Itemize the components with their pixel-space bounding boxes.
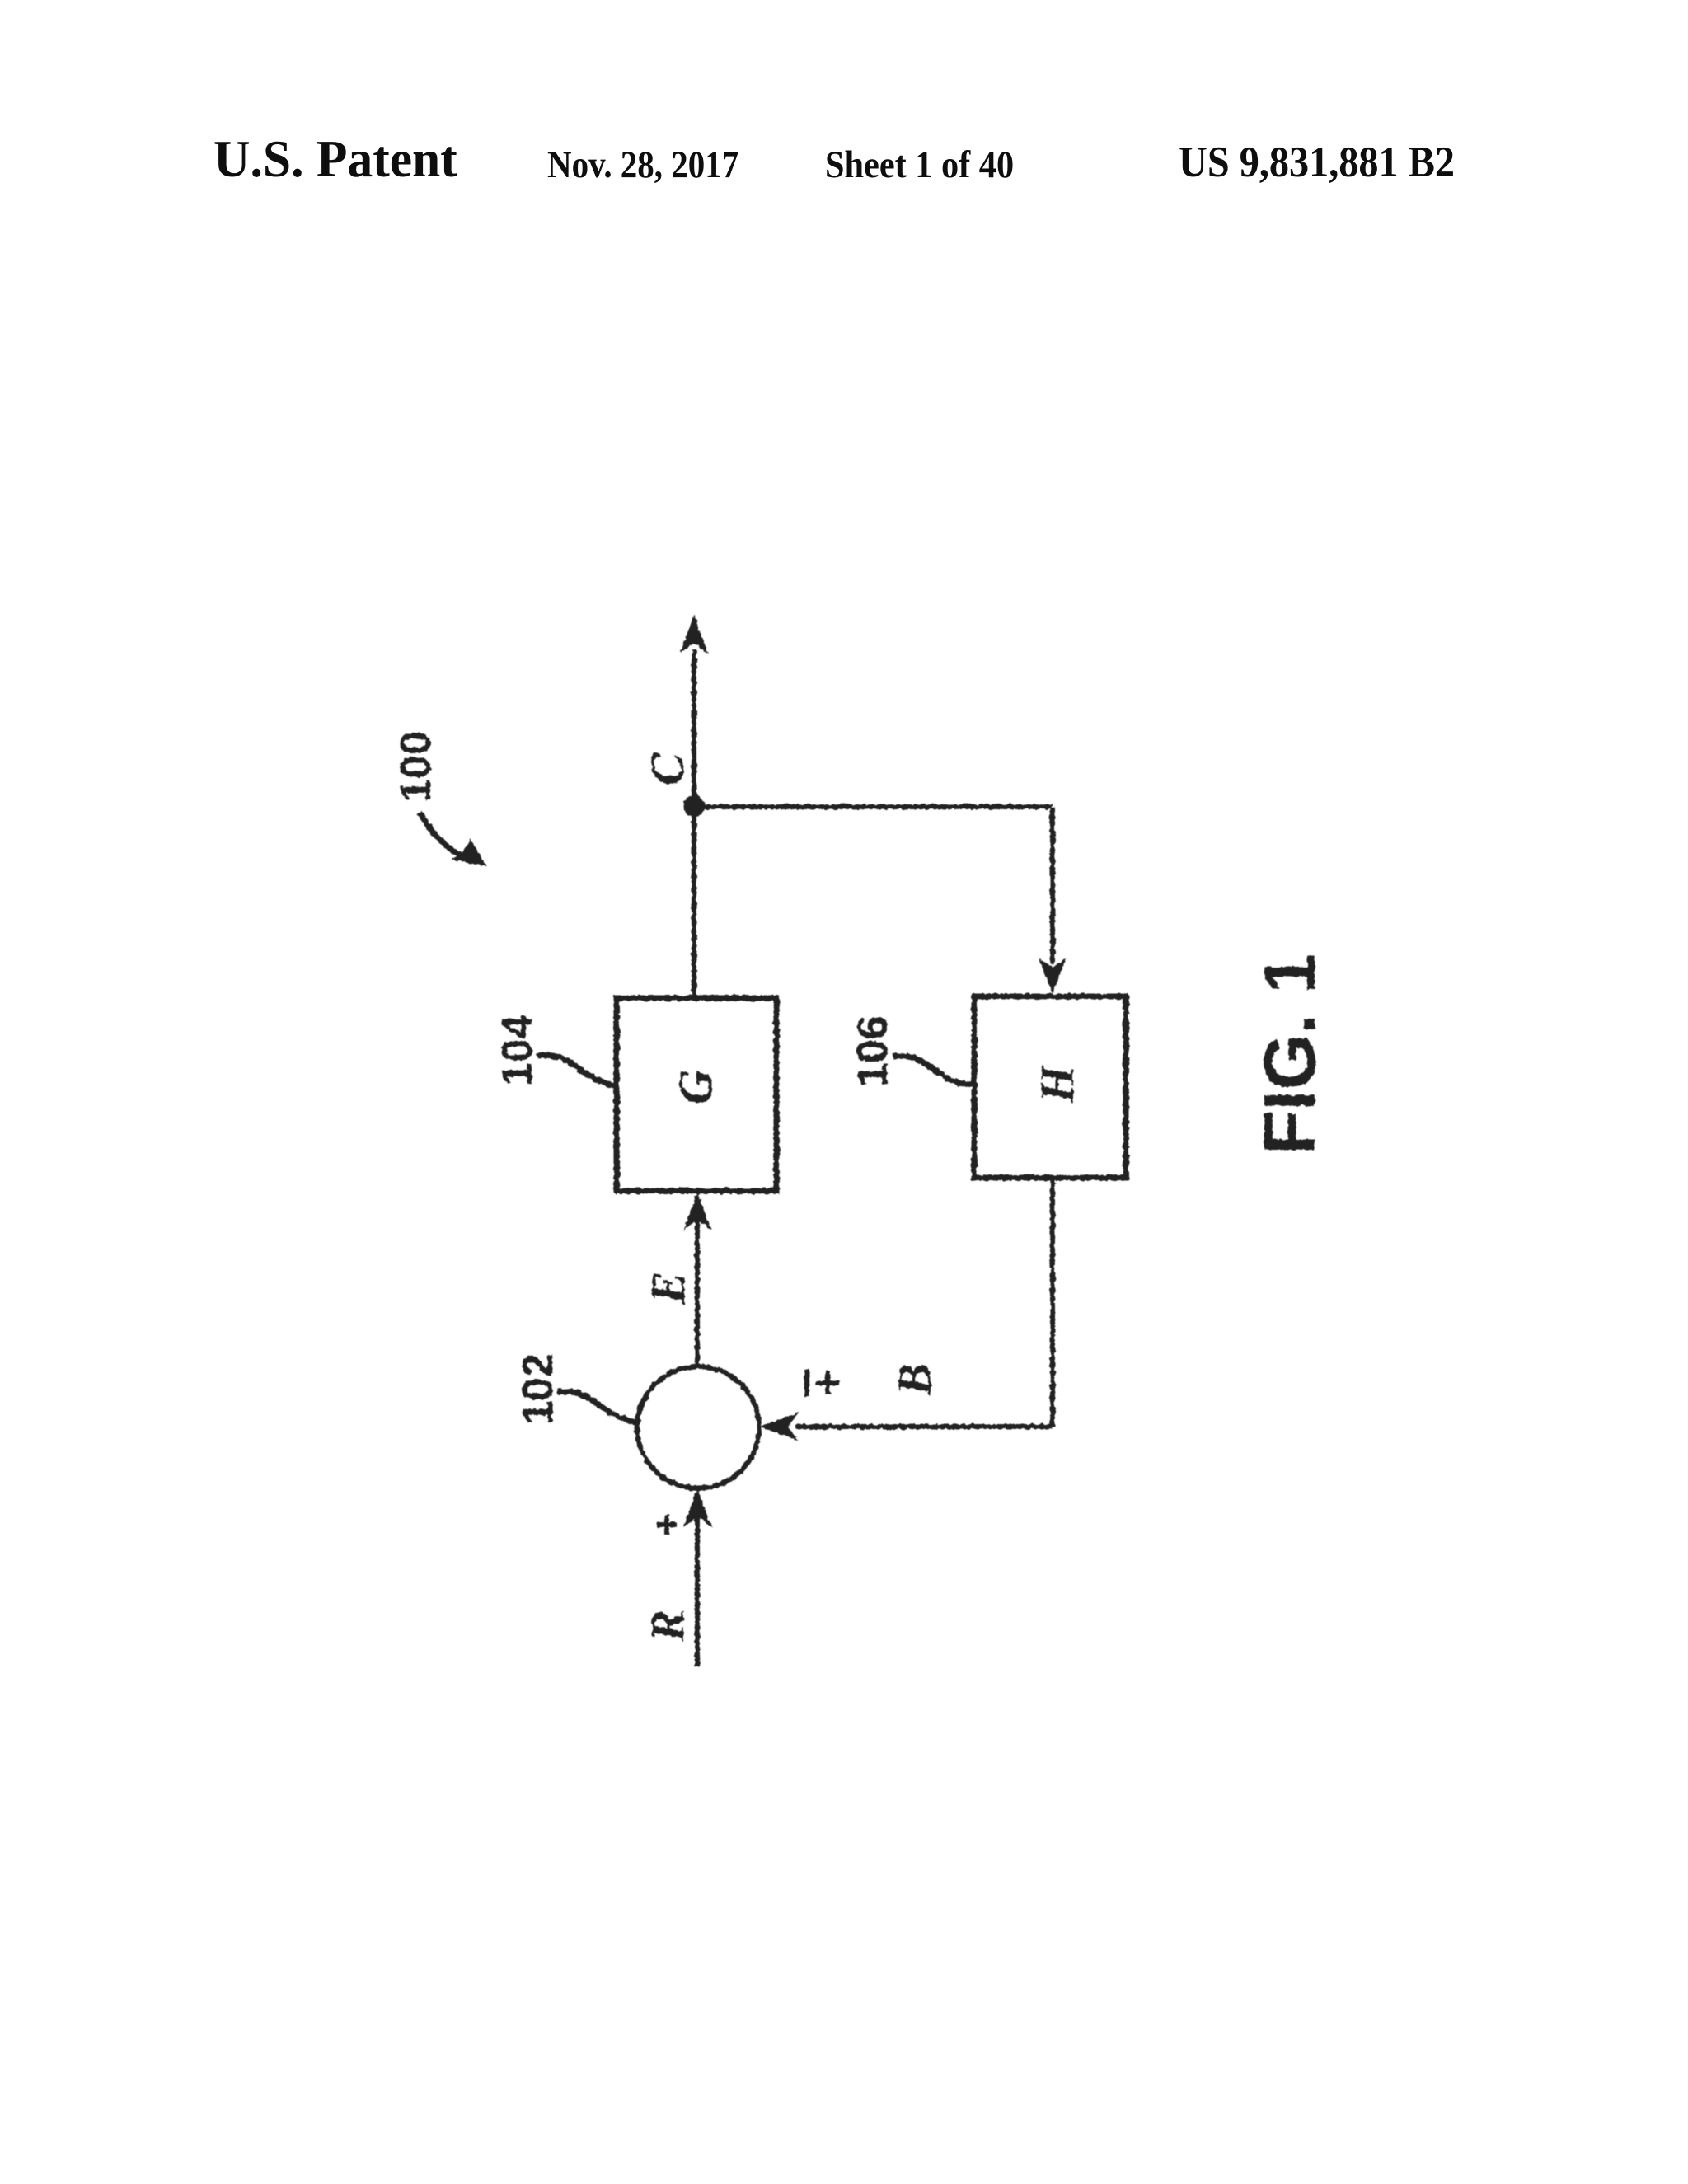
svg-text:100: 100 [392, 731, 440, 803]
svg-text:E: E [641, 1272, 695, 1305]
svg-text:104: 104 [494, 1015, 542, 1086]
svg-text:H: H [1030, 1064, 1084, 1104]
svg-text:FIG. 1: FIG. 1 [1249, 954, 1330, 1155]
svg-text:C: C [640, 752, 694, 785]
svg-text:102: 102 [514, 1353, 562, 1425]
svg-text:G: G [668, 1070, 722, 1104]
svg-text:106: 106 [849, 1015, 897, 1087]
svg-text:B: B [888, 1363, 941, 1396]
svg-text:R: R [640, 1610, 694, 1643]
